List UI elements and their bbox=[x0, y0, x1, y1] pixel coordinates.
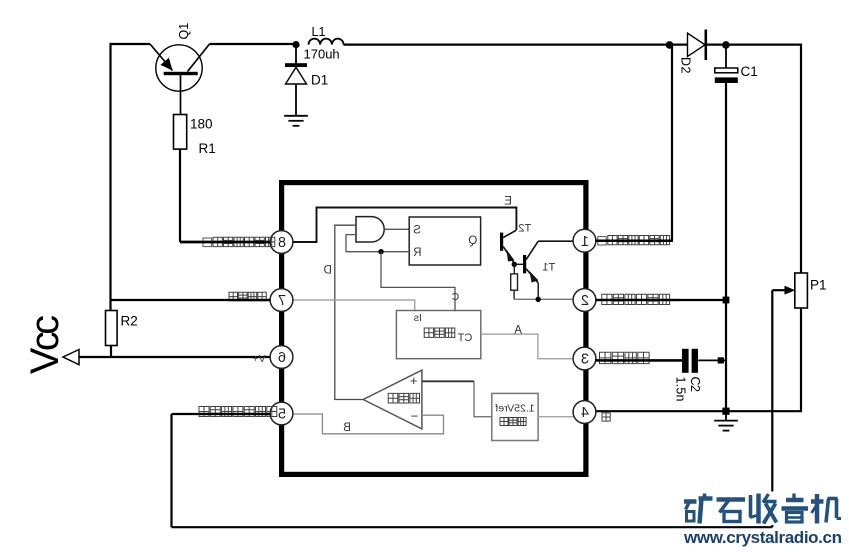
watermark char kuang bbox=[684, 499, 697, 504]
wire ground rail pin4 to P1 bbox=[595, 410, 802, 412]
pin 1 bbox=[573, 229, 596, 252]
diode D2 bbox=[688, 30, 706, 61]
wire V+ to pin6 bbox=[79, 356, 271, 358]
label pin7 function bbox=[229, 292, 266, 301]
node pin2 rail junction bbox=[723, 297, 730, 304]
watermark char ji bbox=[811, 499, 824, 504]
wire B net pin5 to comparator minus bbox=[293, 414, 444, 434]
svg-text:4: 4 bbox=[581, 405, 589, 421]
node T2 emitter junction bbox=[512, 262, 517, 267]
svg-text:8: 8 bbox=[278, 235, 286, 251]
wire R1 bottom to pin8 bbox=[179, 149, 181, 242]
wire top rail left segment bbox=[111, 43, 151, 45]
label oscillator chinese bbox=[424, 328, 455, 337]
wire pin8 over label bbox=[180, 241, 271, 243]
potentiometer P1 bbox=[785, 273, 808, 308]
node R input junction bbox=[378, 249, 383, 254]
wire and-gate top input / D net bbox=[335, 225, 363, 399]
wire pin7 over label bbox=[228, 299, 271, 301]
pin 8 bbox=[270, 231, 293, 254]
pin 3 bbox=[573, 347, 596, 370]
transistor T1 bbox=[514, 241, 538, 299]
watermark char shi bbox=[717, 497, 746, 502]
flip-flop box bbox=[409, 217, 480, 265]
svg-text:R2: R2 bbox=[121, 314, 138, 329]
svg-text:D2: D2 bbox=[679, 57, 693, 74]
wire P1 bottom to ground rail bbox=[800, 308, 802, 412]
svg-text:Q1: Q1 bbox=[177, 23, 191, 40]
svg-text:A: A bbox=[514, 325, 522, 337]
svg-text:Q: Q bbox=[468, 235, 477, 247]
vref box bbox=[492, 393, 538, 440]
wire T1 collector to pin1 bbox=[538, 240, 574, 242]
svg-text:1: 1 bbox=[581, 234, 589, 250]
pin 4 bbox=[573, 401, 596, 424]
svg-text:www.crystalradio.cn: www.crystalradio.cn bbox=[683, 528, 842, 547]
node L1/D1 junction bbox=[292, 41, 299, 48]
label pin2 function bbox=[602, 294, 670, 304]
svg-text:CT: CT bbox=[457, 332, 472, 344]
wire D2 anode stub bbox=[670, 43, 689, 45]
svg-text:Vcc: Vcc bbox=[23, 315, 67, 374]
wire pin2 internal bbox=[514, 298, 574, 300]
wire pin1 over label bbox=[595, 239, 673, 241]
ground right (pin4 net) bbox=[725, 411, 727, 421]
transistor Q1 bbox=[150, 44, 210, 115]
wire D2 node to top-right corner bbox=[726, 43, 802, 45]
diode D1 bbox=[285, 44, 307, 116]
svg-text:+: + bbox=[410, 373, 418, 388]
svg-text:B: B bbox=[343, 422, 351, 434]
pin 5 bbox=[270, 402, 293, 425]
label pin8 function bbox=[203, 238, 212, 247]
svg-text:1.5n: 1.5n bbox=[674, 377, 688, 402]
wire pin7 horizontal bbox=[111, 299, 271, 301]
wire pin1 to D2 node vertical bbox=[671, 45, 673, 241]
label pin4 function bbox=[602, 413, 610, 421]
wire pin2 to vertical bbox=[595, 299, 726, 301]
svg-text:5: 5 bbox=[278, 407, 286, 423]
capacitor C2 bbox=[682, 349, 698, 373]
wire D2 cathode stub bbox=[706, 43, 726, 45]
svg-text:L1: L1 bbox=[312, 25, 326, 39]
and-gate U1A bbox=[356, 217, 384, 242]
svg-text:C1: C1 bbox=[741, 64, 758, 79]
svg-text:3: 3 bbox=[581, 352, 589, 368]
svg-text:170uh: 170uh bbox=[304, 47, 340, 62]
svg-text:T2: T2 bbox=[518, 223, 531, 235]
wire comparator plus input to vref bbox=[422, 380, 474, 382]
svg-text:1.25Vref: 1.25Vref bbox=[495, 403, 534, 415]
svg-text:C2: C2 bbox=[688, 377, 702, 393]
label pin3 function bbox=[600, 352, 650, 363]
svg-text:D1: D1 bbox=[311, 73, 328, 88]
svg-text:−: − bbox=[411, 409, 419, 424]
wire top rail Q1 to L1 node bbox=[210, 43, 297, 45]
svg-text:E: E bbox=[504, 196, 512, 208]
ground for D1 bbox=[284, 115, 308, 117]
resistor internal bbox=[511, 274, 518, 290]
wire pin2 over label bbox=[595, 299, 680, 301]
watermark char shou bbox=[749, 495, 753, 518]
wire pin3 to C2 bbox=[595, 359, 682, 361]
node D2 cathode / C1 junction bbox=[722, 41, 730, 49]
wire C1 C2 vertical bbox=[725, 83, 727, 411]
svg-text:R1: R1 bbox=[199, 141, 216, 156]
resistor R2 bbox=[106, 311, 118, 346]
watermark char yin bbox=[792, 494, 795, 500]
svg-text:180: 180 bbox=[190, 117, 213, 132]
watermark background bbox=[680, 492, 849, 526]
label comparator chinese bbox=[388, 393, 419, 403]
pin 7 bbox=[270, 289, 293, 312]
wire P1 wiper vertical bbox=[771, 290, 773, 527]
wire pin5 over label bbox=[199, 413, 271, 415]
wire pin3 over label bbox=[595, 359, 682, 361]
resistor R1 bbox=[174, 115, 187, 150]
inductor L1 bbox=[309, 39, 344, 45]
node D2 anode junction bbox=[666, 41, 674, 49]
wire pin8 internal to E net bbox=[293, 208, 517, 243]
svg-text:V+: V+ bbox=[252, 353, 265, 365]
node ground rail junction bbox=[722, 408, 729, 415]
node C2 rail junction bbox=[718, 357, 724, 363]
wire A net oscillator to pin3 bbox=[481, 334, 574, 359]
wire top rail L1 to D2 node bbox=[344, 43, 672, 45]
capacitor C1 bbox=[715, 45, 738, 83]
wire bottom rail bbox=[172, 526, 773, 528]
pin 2 bbox=[573, 289, 596, 312]
Vcc arrow bbox=[63, 350, 79, 365]
svg-text:2: 2 bbox=[581, 293, 589, 309]
svg-text:C: C bbox=[451, 291, 459, 303]
wire right vertical down to P1 bbox=[800, 44, 802, 274]
op-amp IC block MC34063 outline bbox=[282, 183, 586, 475]
svg-text:D: D bbox=[324, 264, 332, 276]
transistor T2 bbox=[500, 230, 516, 263]
wire vref to pin4 bbox=[538, 416, 574, 418]
svg-text:T1: T1 bbox=[542, 262, 555, 274]
wire and-gate output to S input bbox=[385, 228, 410, 230]
wire C net to oscillator bbox=[381, 252, 455, 312]
label vref chinese bbox=[500, 418, 526, 426]
svg-text:S: S bbox=[413, 225, 421, 237]
svg-text:7: 7 bbox=[278, 293, 286, 309]
node T1 emitter junction bbox=[536, 297, 541, 302]
wire pin5 to bottom loop bbox=[172, 413, 271, 415]
label pin5 function bbox=[199, 407, 277, 417]
svg-text:R: R bbox=[413, 247, 421, 259]
wire left vertical from top rail to R2 bbox=[109, 43, 111, 311]
wire and-gate bottom input feedback bbox=[346, 235, 409, 252]
label pin1 function bbox=[598, 237, 606, 245]
pin 6 bbox=[270, 346, 293, 369]
svg-text:P1: P1 bbox=[810, 278, 827, 293]
wire pin7 internal to oscillator bbox=[293, 300, 415, 311]
svg-text:6: 6 bbox=[278, 350, 286, 366]
oscillator box bbox=[396, 311, 480, 359]
comparator U1B bbox=[363, 370, 422, 429]
svg-text:Is: Is bbox=[414, 312, 422, 324]
